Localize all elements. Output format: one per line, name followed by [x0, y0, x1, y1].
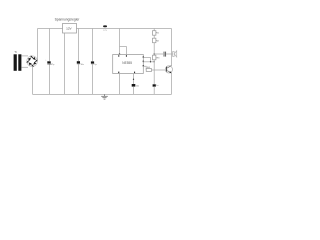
svg-text:10n: 10n [81, 64, 84, 66]
transistor Q1 [165, 66, 172, 74]
resistor R3 [153, 55, 161, 84]
svg-text:12V: 12V [66, 27, 72, 31]
svg-text:47µ: 47µ [51, 64, 55, 66]
wire coupling node [154, 53, 163, 55]
wire emitter down [171, 73, 173, 95]
wire secondary bottom [21, 66, 28, 68]
capacitor C1 [45, 29, 55, 95]
wire top rail left segment [38, 28, 63, 30]
svg-text:NE555: NE555 [122, 61, 132, 65]
resistor R1 [153, 29, 160, 36]
svg-text:R1: R1 [156, 33, 160, 35]
wire branch to pin 4 [120, 47, 127, 55]
svg-text:1µ: 1µ [94, 64, 97, 66]
wire regulator ground [64, 33, 66, 94]
capacitor C3 [91, 29, 98, 95]
ground [101, 94, 108, 99]
wire top rail right segment [77, 28, 172, 30]
wire V+ drop / collector [171, 29, 173, 66]
svg-text:12V: 12V [103, 30, 107, 32]
junction [150, 61, 151, 62]
svg-text:Tr: Tr [14, 50, 17, 54]
resistor R2 [153, 35, 160, 55]
svg-text:R2: R2 [156, 40, 160, 42]
wire bridge - down [32, 67, 34, 95]
svg-text:Spannungsregler: Spannungsregler [55, 18, 81, 22]
capacitor C5 [153, 84, 159, 94]
wire IC supply [119, 29, 121, 55]
wire secondary top [21, 55, 28, 57]
transformer Tr [14, 50, 22, 71]
capacitor C2 [77, 29, 84, 95]
wire pin1 ground [119, 74, 121, 95]
svg-text:10n: 10n [136, 85, 139, 87]
wire pin7 stub [143, 58, 150, 62]
junction [154, 61, 155, 62]
capacitor C4 [132, 84, 139, 94]
resistor R4 [146, 67, 165, 71]
speaker LS1 [172, 51, 177, 57]
wire pin6/2 tie [143, 61, 154, 63]
bridge rectifier B1 [25, 54, 39, 68]
voltage regulator U2 [55, 18, 81, 33]
node +12V label [103, 25, 108, 31]
svg-text:R3: R3 [157, 57, 161, 59]
capacitor C6 [164, 52, 172, 57]
op-amp timer IC U1 NE555 [113, 55, 144, 74]
junction [119, 53, 121, 55]
junction [133, 79, 134, 80]
wire pin5 down [133, 74, 135, 85]
wire pin3 output [143, 66, 146, 70]
wire bottom rail [33, 93, 172, 95]
wire bridge + up to rail [37, 29, 39, 62]
svg-text:1n: 1n [156, 85, 158, 87]
svg-text:+: + [45, 60, 47, 62]
junction [154, 53, 155, 54]
